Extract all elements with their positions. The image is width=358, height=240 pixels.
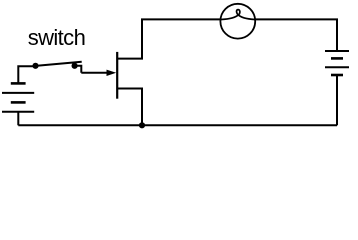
battery B1 plate short 1 [11,82,26,85]
wire: left battery bottom stub [17,112,19,126]
wire: top rail right of lamp + right battery top stub [255,19,337,51]
transistor Q1 gate wire [81,72,108,74]
wire: source lead + drop to bottom rail [117,89,142,126]
switch left contact dot [32,63,38,69]
battery B2 plate short 2 [331,74,343,77]
switch blade [36,62,82,66]
switch right contact dot [72,63,78,69]
battery B1 plate long 1 [2,92,34,94]
wire: switch to left battery top [18,66,35,83]
junction node dot [139,122,145,128]
transistor Q1 gate arrowhead [107,70,117,76]
battery B2 plate long 2 [325,66,349,68]
battery B2 plate long 1 [325,50,349,52]
lamp L1 filament [221,10,255,20]
wire: drain lead + riser + top rail left of lamp [117,19,221,58]
wire: switch right contact to gate [75,66,82,73]
battery B1 plate short 2 [11,101,26,104]
transistor Q1 channel bar [116,52,118,99]
wire: right battery bottom stub [336,75,338,125]
lamp L1 circle [220,4,255,39]
label "switch" [28,27,86,49]
battery B2 plate short 1 [331,57,343,60]
wire: bottom rail [18,124,337,126]
battery B1 plate long 2 [2,111,34,113]
